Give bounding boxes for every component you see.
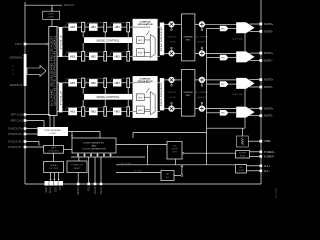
filter HB3 row 4: [113, 108, 121, 116]
node VREF pin: [259, 139, 271, 143]
svg-text:COMPLEX: COMPLEX: [140, 79, 151, 81]
wire right rail: [260, 0, 262, 184]
svg-text:FSC: FSC: [221, 28, 225, 30]
inverse sinc filter group 1: [181, 14, 195, 61]
wire SPI port to connector arrows: [50, 173, 60, 182]
svg-text:RCVR: RCVR: [240, 155, 246, 157]
svg-text:HB1: HB1: [70, 54, 76, 58]
svg-text:SDIO: SDIO: [45, 187, 48, 193]
svg-text:SYNC: SYNC: [48, 13, 54, 15]
svg-text:CS: CS: [59, 186, 62, 190]
svg-text:IOUT0+: IOUT0+: [264, 22, 274, 26]
wire LMFC mux to serdes pll: [64, 148, 73, 150]
multiplier gain row 3: [169, 77, 175, 86]
svg-text:RCVR: RCVR: [238, 170, 244, 172]
wire JESD to sync logic: [53, 116, 55, 128]
wire adder to DAC2: [205, 79, 237, 81]
svg-text:−12 dB: −12 dB: [168, 97, 176, 99]
filter HB3 row 2: [113, 53, 121, 61]
wire bypass row 2.3: [110, 52, 128, 56]
filter HB3 row 3: [113, 79, 121, 87]
wire TXEN to JESD receiver: [25, 43, 49, 45]
svg-text:HB2: HB2: [91, 25, 97, 29]
svg-text:RESET: RESET: [74, 168, 81, 170]
svg-text:CLK+: CLK+: [264, 165, 271, 168]
label IOUT1 pins: [264, 51, 274, 62]
wire serdes pll to control rail: [133, 133, 207, 139]
wire bottom rail: [25, 183, 261, 185]
left pins group (clk/syncout): [8, 113, 27, 149]
LMFC sync mux block: [44, 146, 64, 154]
multiplier gain row 2: [169, 47, 175, 56]
wire control bus rail: [206, 29, 208, 165]
node bottom control pins: [77, 183, 102, 186]
svg-text:CLOCK DISTRIBUTION: CLOCK DISTRIBUTION: [82, 149, 106, 151]
wire bypass row 1.2: [86, 23, 105, 27]
wire bypass row 4.3: [110, 107, 128, 111]
label figure number: [276, 187, 278, 198]
svg-text:8.0GHz SERDES PLL: 8.0GHz SERDES PLL: [83, 142, 105, 144]
bypass mux row 4.3: [127, 107, 130, 117]
svg-text:PLL CLK: PLL CLK: [134, 171, 143, 173]
DAC3 core: [236, 107, 254, 118]
filter HB2 row 2: [89, 53, 98, 61]
JESD204B receiver U1: [49, 27, 57, 116]
bypass mux row 4.1: [82, 107, 85, 117]
bus arrow into JESD receiver: [27, 66, 46, 77]
svg-text:SYNC RECEIVER: SYNC RECEIVER: [45, 130, 62, 132]
svg-text:HB2: HB2: [91, 110, 97, 114]
svg-text:PLL LOCK: PLL LOCK: [121, 163, 131, 165]
bypass mux row 2.1: [82, 52, 85, 62]
svg-text:SINC: SINC: [186, 95, 191, 97]
svg-text:COMPLEX: COMPLEX: [140, 21, 151, 23]
svg-text:FSC: FSC: [221, 84, 225, 86]
label dc offset group 1: [195, 37, 208, 44]
wire FSC feed DAC0: [207, 28, 237, 30]
label sysref pins: [264, 151, 276, 159]
wire mixer to gain multipliers group 2: [164, 80, 169, 109]
svg-text:HB3: HB3: [115, 54, 121, 58]
wire DAC3 outputs: [250, 108, 260, 115]
wire bypass row 1.3: [110, 23, 128, 27]
wire bypass row 2.2: [86, 52, 105, 56]
wire FSC feed DAC3: [207, 112, 237, 114]
wire DAC1 outputs: [250, 53, 260, 60]
svg-text:ADJUST: ADJUST: [197, 96, 206, 99]
svg-text:VREF: VREF: [264, 139, 271, 143]
wire rail to VREF resistor: [207, 118, 246, 136]
label gain range group 2: [168, 92, 176, 99]
svg-text:FSC: FSC: [221, 57, 225, 59]
SERDIN0-7 input connector: [10, 54, 27, 87]
wire serdes pll bottom stubs: [71, 153, 145, 157]
wire modulator to mixer bar group 2: [157, 83, 159, 112]
bypass mux row 3.3: [127, 78, 130, 88]
wire top leader to DACCLK label: [25, 4, 74, 7]
svg-text:IOUT1−: IOUT1−: [264, 59, 274, 63]
svg-text:IOUT0−: IOUT0−: [264, 29, 274, 33]
wire DAC0 outputs: [250, 24, 260, 31]
label dc offset group 2: [195, 92, 208, 99]
wire inverse sinc to offset adders group 1: [195, 24, 199, 53]
svg-text:IOUT2+: IOUT2+: [264, 78, 274, 82]
wire sync logic to LMFC mux: [53, 136, 55, 146]
serdes pll clock block: [71, 135, 116, 153]
inverse sinc filter group 2: [181, 70, 195, 117]
adder dc offset row 4: [199, 102, 205, 111]
filter HB1 row 1: [68, 23, 77, 31]
bypass mux row 3.1: [82, 78, 85, 88]
mixer bar group 2: [160, 78, 164, 110]
filter HB2 row 1: [89, 23, 98, 31]
bypass mux row 4.2: [104, 107, 107, 117]
filter HB1 row 4: [68, 108, 77, 116]
svg-text:INVERSE: INVERSE: [184, 37, 194, 39]
node IOUT1 pins: [259, 52, 262, 62]
svg-text:RESET: RESET: [77, 186, 80, 195]
label IOUT3 pins: [264, 106, 274, 117]
wire labeled net B: [116, 171, 161, 173]
bypass mux row 1.1: [82, 22, 85, 32]
svg-text:TXEN0: TXEN0: [94, 186, 97, 194]
bypass mux row 3.2: [104, 78, 107, 88]
svg-text:AND: AND: [92, 144, 97, 147]
wire datapath row 1 segments: [57, 26, 133, 28]
power-on reset block: [67, 161, 87, 173]
svg-text:16-BIT DAC: 16-BIT DAC: [232, 37, 244, 40]
wire LMFC mux to SPI port: [53, 153, 55, 161]
label bottom control pins: [77, 186, 103, 195]
svg-text:SYNC MUX: SYNC MUX: [48, 151, 59, 153]
wire serdes pll branch vertical: [147, 145, 149, 165]
complex modulator group 1: [133, 19, 158, 60]
svg-text:RM MIXER: RM MIXER: [161, 81, 163, 106]
wire gain to inverse sinc group 2: [174, 80, 181, 109]
svg-text:SYSREF: SYSREF: [239, 153, 247, 155]
svg-text:SINC: SINC: [186, 40, 191, 42]
svg-text:TXEN1: TXEN1: [100, 186, 103, 194]
wire stub to power-on reset: [78, 157, 80, 161]
FSC tag DAC3: [220, 110, 229, 116]
filter HB2 row 3: [89, 79, 98, 87]
wire adder to DAC0: [205, 23, 237, 25]
mode control bar group 2: [84, 94, 132, 100]
wire bypass row 3.3: [110, 79, 128, 83]
filter HB1 row 2: [68, 53, 77, 61]
svg-text:LMFC: LMFC: [51, 148, 57, 150]
node IOUT2 pins: [259, 78, 262, 88]
node IOUT0 pins: [259, 23, 262, 33]
svg-text:IOUT1+: IOUT1+: [264, 51, 274, 55]
svg-text:DIST: DIST: [172, 152, 177, 154]
wire bypass row 1.1: [65, 23, 83, 27]
node IOUT3 pins: [259, 107, 262, 117]
svg-text:HB3: HB3: [115, 81, 121, 85]
svg-text:12767-001: 12767-001: [276, 187, 278, 198]
svg-text:SYNCOUT0+: SYNCOUT0+: [8, 128, 24, 131]
wire modulator to mixer bar group 1: [157, 27, 159, 56]
filter HB3 row 1: [113, 23, 121, 31]
svg-text:FSC: FSC: [221, 113, 225, 115]
wire clk pins: [247, 166, 260, 171]
filter HB2 row 4: [89, 108, 98, 116]
wire clock receiver to sysref box: [184, 152, 236, 154]
resistor VREF block: [237, 136, 249, 147]
adder dc offset row 3: [199, 77, 205, 86]
svg-text:HB2: HB2: [91, 81, 97, 85]
wire datapath row 3 segments: [57, 82, 133, 84]
wire DAC pair bias link group 2: [232, 89, 245, 107]
DAC PLL block: [161, 171, 174, 181]
svg-text:QUAD-BYTE DEFRAMER (QBD): QUAD-BYTE DEFRAMER (QBD): [54, 36, 57, 106]
wire serdes pll to clock receiver: [116, 144, 167, 146]
svg-text:IRQ: IRQ: [88, 187, 91, 191]
svg-text:SERDIN7±: SERDIN7±: [10, 83, 23, 87]
wire U2 top with node circle: [51, 5, 53, 11]
label clk pins: [264, 165, 271, 173]
complex modulator group 2: [133, 76, 158, 117]
svg-text:MODULATION: MODULATION: [138, 23, 153, 26]
wire mux to mode control group 2: [83, 88, 128, 107]
FSC tag DAC1: [220, 55, 229, 61]
wire FSC feed DAC1: [207, 57, 237, 59]
svg-text:MODE CONTROL: MODE CONTROL: [97, 38, 120, 42]
svg-text:HB3: HB3: [115, 110, 121, 114]
wire adder to DAC1: [205, 52, 237, 54]
wire left rail: [24, 2, 26, 184]
svg-text:HB3: HB3: [115, 25, 121, 29]
sync/LMFC block U2: [43, 11, 60, 19]
SPI pins connector: [45, 181, 64, 186]
svg-text:SYNCOUT1−: SYNCOUT1−: [8, 146, 24, 149]
sysref receiver block: [236, 151, 250, 159]
svg-text:CLK: CLK: [173, 146, 178, 148]
wire labeled net A: [116, 163, 236, 165]
adder dc offset row 1: [199, 22, 205, 31]
wire VREF pin: [248, 140, 259, 142]
wire U2 to JESD receiver: [51, 19, 53, 26]
wire datapath row 4 segments: [57, 111, 133, 113]
svg-text:SDO: SDO: [54, 187, 57, 192]
DAC0 core: [236, 22, 254, 33]
bypass mux row 1.2: [104, 22, 107, 32]
svg-text:16-BIT DAC: 16-BIT DAC: [232, 93, 244, 96]
mode control bar group 1: [84, 37, 132, 43]
sync receiver logic block: [38, 127, 69, 136]
svg-text:DAC: DAC: [165, 173, 170, 176]
svg-text:IOUT3+: IOUT3+: [264, 106, 274, 110]
svg-text:MODE CONTROL: MODE CONTROL: [97, 95, 120, 99]
adder dc offset row 2: [199, 47, 205, 56]
svg-text:POWER-ON: POWER-ON: [71, 165, 83, 167]
svg-text:ADJUST: ADJUST: [197, 40, 206, 43]
DAC1 core: [236, 51, 254, 62]
wire adder to DAC3: [205, 108, 237, 110]
wire FSC feed DAC2: [207, 83, 237, 85]
bypass mux row 2.3: [127, 52, 130, 62]
svg-text:LMFC: LMFC: [48, 17, 54, 19]
clk receiver input block: [236, 165, 247, 174]
svg-text:SYNCOUT0−: SYNCOUT0−: [8, 133, 24, 136]
lane mux POL2: [59, 83, 63, 113]
FSC tag DAC0: [220, 26, 229, 32]
wire sync logic to serdes pll: [68, 132, 100, 139]
svg-text:RM MIXER: RM MIXER: [161, 26, 163, 51]
node clk pins: [260, 165, 263, 173]
wire clock receiver down stub: [174, 159, 176, 165]
wire bypass row 3.1: [65, 79, 83, 83]
label SPI pin names: [45, 186, 62, 193]
SPI port block: [44, 162, 64, 173]
svg-text:SYSREF+: SYSREF+: [264, 151, 276, 154]
bypass mux row 2.2: [104, 52, 107, 62]
svg-text:HB1: HB1: [70, 110, 76, 114]
filter HB1 row 3: [68, 79, 77, 87]
label IOUT2 pins: [264, 78, 274, 89]
node sysref pins: [260, 151, 263, 158]
svg-text:TXEN: TXEN: [15, 43, 22, 46]
svg-text:SERDIN0±: SERDIN0±: [10, 56, 23, 60]
svg-text:POL1: POL1: [60, 33, 62, 49]
label gain range group 1: [168, 37, 176, 44]
wire left pins routing: [25, 115, 50, 148]
svg-text:0 dB TO: 0 dB TO: [168, 37, 176, 39]
svg-text:−12 dB: −12 dB: [168, 41, 176, 43]
svg-text:NCO: NCO: [138, 40, 143, 42]
wire sysref pins: [250, 152, 260, 157]
svg-text:DACCLK: DACCLK: [64, 4, 74, 7]
wire inverse sinc to offset adders group 2: [195, 80, 199, 109]
wire bypass row 4.1: [65, 107, 83, 111]
svg-text:POL2: POL2: [60, 89, 62, 105]
svg-text:HB1: HB1: [70, 25, 76, 29]
svg-text:SERIAL: SERIAL: [50, 164, 58, 167]
wire bypass row 4.2: [86, 107, 105, 111]
wire bypass row 2.1: [65, 52, 83, 56]
wire datapath row 2 segments: [57, 55, 133, 57]
svg-text:INVERSE: INVERSE: [184, 92, 194, 94]
bypass mux row 1.3: [127, 22, 130, 32]
wire DAC pair bias link group 1: [232, 33, 245, 51]
svg-text:RCVR: RCVR: [172, 149, 178, 151]
svg-text:LOGIC: LOGIC: [50, 133, 57, 135]
svg-text:I/O PORT: I/O PORT: [49, 168, 59, 170]
svg-text:HB1: HB1: [70, 81, 76, 85]
label IOUT0 pins: [264, 22, 274, 33]
mixer bar group 1: [160, 23, 164, 56]
svg-text:NCO: NCO: [138, 97, 143, 99]
wire DAC PLL feedback with node circles: [174, 165, 183, 177]
wire mux to mode control group 1: [83, 32, 128, 52]
svg-text:HB2: HB2: [91, 54, 97, 58]
wire bypass row 3.2: [86, 79, 105, 83]
multiplier gain row 4: [169, 102, 175, 111]
DAC2 core: [236, 78, 254, 89]
svg-text:IOUT3−: IOUT3−: [264, 114, 274, 118]
FSC tag DAC2: [220, 81, 229, 87]
wire DAC2 outputs: [250, 80, 260, 87]
svg-text:PDP CLK0: PDP CLK0: [11, 114, 24, 117]
svg-text:IOUT2−: IOUT2−: [264, 85, 274, 89]
svg-text:SYNCOUT1+: SYNCOUT1+: [8, 141, 24, 144]
svg-text:PDP CLK1: PDP CLK1: [11, 120, 24, 123]
node TXEN pin: [15, 43, 26, 46]
svg-text:CLK−: CLK−: [264, 170, 271, 173]
wire gain to inverse sinc group 1: [174, 24, 181, 53]
wire bottom pin drops: [78, 157, 101, 183]
svg-text:SYSREF−: SYSREF−: [264, 155, 276, 158]
multiplier gain row 1: [169, 22, 175, 31]
lane mux POL1: [59, 27, 63, 57]
svg-text:0 dB TO: 0 dB TO: [168, 92, 176, 94]
clock receiver block: [167, 142, 184, 160]
svg-text:SCLK: SCLK: [49, 186, 52, 193]
wire mixer to gain multipliers group 1: [164, 24, 169, 53]
